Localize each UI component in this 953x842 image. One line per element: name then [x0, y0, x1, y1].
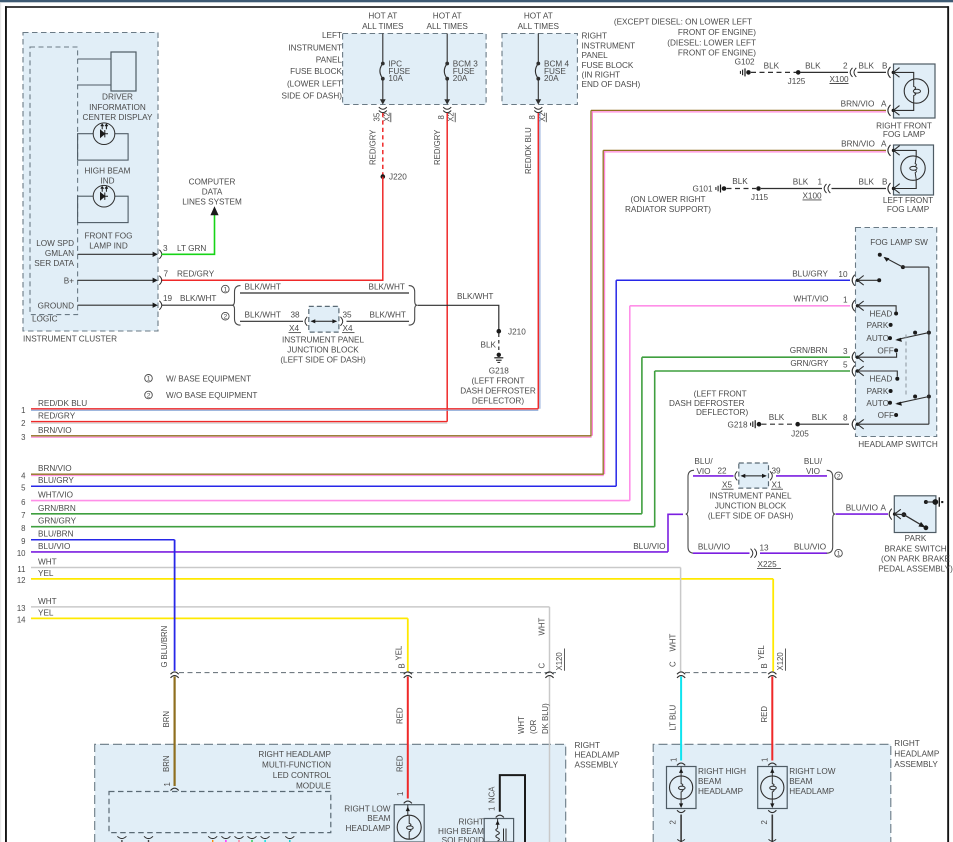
svg-text:WHT: WHT [538, 618, 547, 636]
splice J205 [791, 422, 809, 439]
wire BLK/WHT upper branch [240, 283, 409, 294]
lower switch bank positions [866, 375, 899, 421]
svg-text:BLK: BLK [764, 62, 780, 71]
wire row 12 YEL [17, 569, 773, 585]
left fog lamp pin B cup [888, 183, 900, 194]
svg-text:GRN/GRY: GRN/GRY [790, 359, 829, 368]
wire BLU/VIO riser to junction brace [633, 514, 683, 552]
svg-text:INSTRUMENT PANEL: INSTRUMENT PANEL [282, 336, 364, 345]
svg-text:BLK/WHT: BLK/WHT [369, 283, 405, 292]
ground G218 right [727, 420, 761, 429]
svg-text:RIGHT LOW: RIGHT LOW [344, 804, 391, 813]
svg-text:B: B [398, 663, 407, 668]
headlamp switch pin 1 [793, 294, 896, 311]
wire BLU/BRN vertical to module pin G [174, 540, 176, 671]
svg-text:SER DATA: SER DATA [34, 259, 74, 268]
X120 right pin C connector [669, 634, 686, 678]
legend circled 1 w/ base equipment [145, 375, 251, 384]
svg-text:GMLAN: GMLAN [45, 249, 74, 258]
svg-text:2: 2 [760, 820, 769, 824]
svg-text:RIGHT LOW: RIGHT LOW [789, 767, 836, 776]
svg-text:WHT: WHT [669, 634, 678, 652]
right instrument panel fuse block box [502, 34, 577, 105]
wire YEL vertical to X120 right pin B [772, 579, 774, 671]
svg-text:9: 9 [21, 537, 25, 546]
svg-text:1: 1 [837, 551, 841, 558]
svg-text:BLK/WHT: BLK/WHT [245, 311, 281, 320]
svg-text:RIGHT: RIGHT [894, 739, 919, 748]
junction block label [280, 336, 366, 365]
wire BLK dashed G101 to J115 [727, 177, 757, 188]
svg-text:RED: RED [760, 706, 769, 723]
splice J210 [497, 327, 527, 336]
svg-text:BLU/VIO: BLU/VIO [698, 543, 730, 552]
left front fog lamp [883, 145, 934, 214]
svg-text:G: G [160, 661, 169, 667]
headlamp switch pin 5 [790, 359, 897, 377]
svg-text:X120: X120 [776, 652, 785, 671]
connector X4 pin 38 cup [289, 317, 308, 333]
svg-text:DK BLU): DK BLU) [541, 703, 550, 734]
circled 1 lower branch [835, 549, 843, 557]
connector X225 pin 13 [751, 544, 782, 569]
wire row 14 YEL [17, 608, 408, 624]
svg-text:HEADLAMP: HEADLAMP [894, 750, 940, 759]
wire WHT vertical to X120 left pin C [549, 607, 551, 671]
headlamp switch pin 10 [792, 269, 881, 285]
svg-text:C: C [538, 663, 547, 669]
high beam lamp pin 2 [669, 810, 686, 842]
svg-text:1: 1 [818, 178, 823, 187]
svg-text:ALL TIMES: ALL TIMES [362, 22, 404, 31]
low beam headlamp lamp left [394, 801, 424, 842]
wire BRN/VIO vertical to left fog lamp [603, 150, 604, 474]
svg-text:C: C [669, 661, 678, 667]
wire row 10 BLU/VIO [17, 542, 668, 558]
svg-text:10: 10 [838, 270, 848, 279]
svg-text:1: 1 [487, 807, 496, 811]
right high beam solenoid label [438, 817, 484, 842]
top navy page bar [0, 0, 953, 2]
svg-text:GRN/BRN: GRN/BRN [790, 346, 828, 355]
cluster pin 19 stub GROUND [38, 294, 217, 310]
svg-text:BRN/VIO: BRN/VIO [841, 100, 875, 109]
wire LT BLU pin C to high beam lamp [669, 677, 682, 763]
svg-text:10A: 10A [388, 74, 403, 83]
connector X1 cup [770, 467, 783, 490]
wire BLK J125 to X100 [801, 62, 849, 73]
svg-text:BLU/BRN: BLU/BRN [160, 626, 169, 660]
svg-text:(LEFT SIDE OF DASH): (LEFT SIDE OF DASH) [280, 356, 366, 365]
svg-text:LEFT: LEFT [322, 31, 342, 40]
connector X100 pin 2 [829, 62, 856, 84]
svg-text:HEADLAMP: HEADLAMP [345, 824, 391, 833]
svg-text:MULTI-FUNCTION: MULTI-FUNCTION [262, 760, 331, 769]
wire RED pin B to low beam lamp [395, 677, 407, 799]
svg-text:13: 13 [17, 604, 26, 613]
svg-text:FOG LAMP: FOG LAMP [883, 130, 926, 139]
svg-text:X100: X100 [802, 191, 822, 200]
svg-text:ALL TIMES: ALL TIMES [426, 22, 468, 31]
connector cup below BCM4 fuse pin 8 X2 [528, 107, 547, 122]
X120 left pin B connector [395, 645, 412, 678]
svg-text:INSTRUMENT CLUSTER: INSTRUMENT CLUSTER [23, 335, 117, 344]
svg-text:B: B [882, 178, 888, 187]
legend circled 2 w/o base equipment [145, 391, 258, 400]
lower switch wiper [895, 395, 931, 406]
svg-text:LOW SPD: LOW SPD [36, 239, 74, 248]
svg-text:GRN/GRY: GRN/GRY [38, 517, 77, 526]
wire BLU/GRY horizontal to pin 10 [616, 279, 850, 281]
wire RED pin B to low beam lamp right [760, 677, 773, 763]
circled 2 upper branch [835, 472, 843, 480]
wire BRN/VIO right fog lamp pin A [591, 100, 900, 116]
svg-text:20A: 20A [544, 74, 559, 83]
svg-text:HIGH BEAM: HIGH BEAM [85, 166, 131, 175]
right low beam headlamp lamp [758, 763, 836, 808]
right headlamp assembly box right (halogen version) [653, 739, 940, 842]
wire BLK X100 to left fog lamp pin B [832, 178, 889, 189]
wire row 2 RED/GRY [21, 412, 447, 428]
wire NCA loop [487, 775, 525, 842]
close brace BLU/VIO join [827, 470, 835, 553]
svg-text:ALL TIMES: ALL TIMES [518, 22, 560, 31]
svg-text:BLU/VIO: BLU/VIO [38, 542, 70, 551]
svg-text:INFORMATION: INFORMATION [89, 103, 146, 112]
svg-text:10: 10 [17, 549, 26, 558]
svg-text:BEAM: BEAM [789, 777, 812, 786]
wire YEL vertical to X120 left pin B [407, 618, 409, 671]
connector X5 cup [722, 471, 738, 489]
svg-text:BLU/VIO: BLU/VIO [846, 504, 878, 513]
wire BRN pin G to module [162, 677, 174, 787]
svg-text:RIGHT FRONT: RIGHT FRONT [876, 121, 932, 130]
svg-text:X120: X120 [555, 652, 564, 671]
solenoid pin 1 cup [496, 815, 504, 817]
svg-text:BLK/WHT: BLK/WHT [457, 292, 493, 301]
svg-text:YEL: YEL [38, 608, 54, 617]
svg-text:FRONT OF ENGINE): FRONT OF ENGINE) [678, 48, 756, 57]
high beam indicator LED [78, 123, 131, 185]
module pin G connector [160, 626, 179, 678]
svg-text:BRN/VIO: BRN/VIO [841, 139, 875, 148]
wire BLU/VIO lower branch right [760, 543, 827, 554]
svg-text:BRN: BRN [162, 711, 171, 727]
circled 2 at brace [222, 312, 230, 320]
headlamp switch box [856, 228, 938, 450]
svg-text:(ON LOWER RIGHT: (ON LOWER RIGHT [630, 195, 705, 204]
svg-text:BLU/VIO: BLU/VIO [794, 543, 826, 552]
svg-text:(EXCEPT DIESEL: ON LOWER LEFT: (EXCEPT DIESEL: ON LOWER LEFT [614, 18, 752, 27]
svg-text:(LOWER LEFT: (LOWER LEFT [287, 80, 342, 89]
svg-text:HEADLAMP: HEADLAMP [575, 751, 621, 760]
svg-text:1: 1 [147, 376, 151, 383]
computer data lines arrow [182, 177, 242, 215]
svg-text:MODULE: MODULE [296, 781, 332, 790]
svg-text:HIGH BEAM: HIGH BEAM [438, 827, 484, 836]
svg-text:LOGIC: LOGIC [32, 315, 58, 324]
svg-text:WHT: WHT [38, 597, 57, 606]
svg-text:RED/GRY: RED/GRY [433, 129, 442, 165]
park brake switch [893, 496, 943, 533]
hot at all times label 2 [426, 11, 468, 31]
splice J125 [788, 70, 806, 86]
svg-text:1: 1 [21, 406, 25, 415]
svg-text:HOT AT: HOT AT [368, 11, 397, 20]
wire WHT/VIO vertical to headlamp sw pin 1 [629, 306, 631, 501]
wire RED/DK BLU solid BCM4 down to row 1 [524, 113, 540, 409]
svg-text:J210: J210 [508, 327, 526, 336]
wire row 4 BRN/VIO [21, 464, 604, 480]
except diesel note [614, 18, 756, 58]
front fog lamp indicator LED [78, 185, 133, 250]
wire GRN/GRY vertical to headlamp sw pin 5 [654, 371, 656, 527]
svg-text:AUTO: AUTO [866, 334, 889, 343]
svg-text:8: 8 [21, 524, 25, 533]
cluster pin 3 stub [78, 244, 168, 259]
svg-text:3: 3 [163, 244, 168, 253]
svg-text:11: 11 [17, 565, 25, 574]
svg-text:YEL: YEL [38, 569, 54, 578]
svg-text:IND: IND [100, 176, 114, 185]
svg-text:RED/GRY: RED/GRY [38, 412, 76, 421]
svg-text:SOLENOID: SOLENOID [442, 836, 484, 842]
svg-text:LT BLU: LT BLU [669, 704, 678, 730]
right fog lamp pin B cup [888, 67, 900, 78]
park brake switch pin A cup [889, 509, 892, 520]
X120 left dashed connector line [179, 672, 556, 674]
svg-text:20A: 20A [453, 74, 468, 83]
svg-text:HEAD: HEAD [870, 310, 893, 319]
wire RED/GRY solid from J220 to B+ corner [161, 177, 383, 281]
svg-text:1: 1 [843, 295, 848, 304]
fuse BCM 3 20A [444, 34, 478, 105]
svg-text:BLK: BLK [793, 178, 809, 187]
svg-text:X1: X1 [772, 481, 782, 490]
svg-text:3: 3 [21, 433, 25, 442]
svg-text:12: 12 [17, 576, 26, 585]
svg-text:GROUND: GROUND [38, 301, 74, 310]
svg-text:PARK: PARK [905, 534, 927, 543]
svg-text:19: 19 [163, 294, 173, 303]
svg-text:LAMP IND: LAMP IND [89, 241, 128, 250]
svg-text:(LEFT SIDE OF DASH): (LEFT SIDE OF DASH) [708, 512, 794, 521]
wire BLK X100 to right fog lamp pin B [858, 62, 889, 73]
wire BLK dashed G218 to J205 [762, 413, 796, 424]
svg-text:HEAD: HEAD [870, 375, 893, 384]
svg-text:SIDE OF DASH): SIDE OF DASH) [281, 92, 342, 101]
svg-text:1: 1 [669, 758, 678, 762]
wire BLK dashed to ground [481, 334, 499, 354]
svg-text:BLU/: BLU/ [804, 457, 823, 466]
left instrument panel fuse block box [343, 34, 487, 105]
wire row 3 BRN/VIO [21, 426, 591, 442]
fuse BCM 4 20A [535, 34, 569, 105]
svg-text:LED CONTROL: LED CONTROL [273, 771, 332, 780]
open brace for junction block branches [232, 286, 240, 326]
svg-text:YEL: YEL [757, 645, 766, 660]
svg-text:G101: G101 [692, 185, 712, 194]
svg-text:GRN/BRN: GRN/BRN [38, 504, 76, 513]
svg-text:A: A [881, 139, 887, 148]
open brace BLU/VIO split [686, 470, 694, 553]
svg-text:JUNCTION BLOCK: JUNCTION BLOCK [715, 501, 787, 510]
wire row 9 BLU/BRN [21, 530, 174, 546]
wire BLU/VIO lower branch left [693, 543, 750, 554]
svg-text:BLK: BLK [812, 413, 828, 422]
common rail [928, 267, 930, 424]
svg-text:PANEL: PANEL [582, 51, 609, 60]
X120 right dashed connector line [685, 672, 770, 674]
svg-text:JUNCTION BLOCK: JUNCTION BLOCK [287, 345, 359, 354]
wire row 11 WHT [17, 558, 680, 574]
svg-text:BLK/WHT: BLK/WHT [370, 311, 406, 320]
mechanical link dashed [905, 335, 907, 397]
svg-text:BEAM: BEAM [367, 814, 390, 823]
svg-text:1: 1 [761, 758, 770, 762]
svg-text:X4: X4 [343, 324, 353, 333]
driver information center display [78, 52, 153, 122]
svg-text:DRIVER: DRIVER [102, 92, 133, 101]
wire row 13 WHT [17, 597, 550, 613]
svg-text:X2: X2 [447, 112, 456, 122]
svg-text:HEADLAMP: HEADLAMP [789, 787, 835, 796]
svg-text:B: B [760, 663, 769, 668]
svg-text:A: A [881, 100, 887, 109]
svg-text:35: 35 [343, 311, 353, 320]
led control module inner box [109, 792, 331, 833]
svg-text:DATA: DATA [202, 187, 223, 196]
svg-text:PARK: PARK [867, 321, 889, 330]
ground G218 left [460, 353, 536, 406]
svg-text:BLK: BLK [769, 413, 785, 422]
left page edge shading [0, 2, 1, 842]
junction block 2 label [708, 491, 794, 520]
wire RED/GRY dashed from IPC fuse to J220 [368, 113, 382, 175]
svg-text:BLK/WHT: BLK/WHT [245, 283, 281, 292]
wire BLU/VIO to park brake switch [836, 504, 889, 514]
svg-text:6: 6 [21, 498, 25, 507]
wire GRN/BRN vertical to headlamp sw pin 3 [641, 357, 643, 514]
svg-text:WHT/VIO: WHT/VIO [793, 294, 828, 303]
svg-text:(IN RIGHT: (IN RIGHT [582, 71, 621, 80]
svg-text:HEADLAMP SWITCH: HEADLAMP SWITCH [858, 440, 938, 449]
wire BLK/WHT lower branch left [240, 311, 303, 322]
headlamp switch pin 3 [790, 346, 897, 363]
svg-text:A: A [881, 504, 887, 513]
splice J220 [381, 173, 408, 182]
wire BRN/VIO vertical to right fog lamp [591, 110, 592, 435]
svg-text:INSTRUMENT: INSTRUMENT [582, 41, 636, 50]
svg-text:B: B [882, 62, 888, 71]
svg-text:RED/DK BLU: RED/DK BLU [524, 127, 533, 174]
svg-text:X100: X100 [829, 75, 849, 84]
ground G102 [735, 57, 755, 76]
right fuse block label [582, 32, 641, 89]
svg-text:J115: J115 [751, 193, 769, 202]
svg-text:4: 4 [21, 472, 26, 481]
svg-text:8: 8 [437, 115, 446, 119]
svg-text:RIGHT: RIGHT [459, 817, 484, 826]
svg-text:2: 2 [669, 820, 678, 824]
wire WHT/VIO horizontal to pin 1 [630, 305, 850, 307]
park brake switch label [878, 534, 953, 573]
svg-text:G102: G102 [735, 57, 755, 66]
svg-text:G218: G218 [727, 420, 747, 429]
svg-text:RIGHT HIGH: RIGHT HIGH [698, 767, 746, 776]
X120 right pin B connector [757, 645, 786, 678]
svg-text:1: 1 [163, 782, 172, 786]
right high beam headlamp lamp [667, 763, 747, 808]
wire row 5 BLU/GRY [21, 476, 616, 492]
svg-text:BLK: BLK [805, 62, 821, 71]
svg-text:INSTRUMENT PANEL: INSTRUMENT PANEL [709, 491, 791, 500]
wire WHT OR DK BLU pin C down [517, 677, 550, 842]
svg-text:G218: G218 [489, 367, 509, 376]
svg-text:(OR: (OR [529, 719, 538, 734]
svg-text:BEAM: BEAM [698, 777, 721, 786]
svg-text:3: 3 [843, 347, 848, 356]
splice J115 [751, 186, 769, 202]
svg-text:RED: RED [395, 755, 404, 772]
close brace joining branches [409, 286, 417, 326]
svg-text:BLU/GRY: BLU/GRY [792, 269, 828, 278]
svg-text:DASH DEFROSTER: DASH DEFROSTER [669, 399, 745, 408]
svg-text:1: 1 [396, 792, 405, 796]
low beam lamp pin 2 [760, 810, 777, 842]
svg-text:PARK: PARK [867, 387, 889, 396]
svg-text:PANEL: PANEL [316, 55, 343, 64]
svg-text:39: 39 [772, 467, 782, 476]
svg-text:J205: J205 [791, 430, 809, 439]
svg-text:J125: J125 [788, 77, 806, 86]
svg-text:BRN: BRN [162, 756, 171, 772]
svg-text:COMPUTER: COMPUTER [189, 177, 236, 186]
svg-text:BLK: BLK [481, 341, 497, 350]
svg-text:BLU/GRY: BLU/GRY [38, 476, 74, 485]
svg-text:LEFT FRONT: LEFT FRONT [883, 196, 933, 205]
cluster pin labels LOW SPD GMLAN SER DATA [34, 239, 74, 268]
svg-text:LINES SYSTEM: LINES SYSTEM [182, 197, 242, 206]
svg-text:ASSEMBLY: ASSEMBLY [575, 761, 619, 770]
svg-text:X5: X5 [722, 481, 732, 490]
headlamp switch pin 8 [843, 414, 929, 430]
svg-text:BLK: BLK [859, 62, 875, 71]
svg-text:(DIESEL: LOWER LEFT: (DIESEL: LOWER LEFT [667, 38, 756, 47]
svg-text:WHT: WHT [517, 716, 526, 734]
svg-text:RED/GRY: RED/GRY [368, 129, 377, 165]
fuse IPC 10A [380, 34, 411, 105]
logic inner box [30, 47, 78, 324]
svg-text:7: 7 [21, 511, 25, 520]
svg-text:35: 35 [373, 112, 382, 121]
svg-text:RED/GRY: RED/GRY [177, 269, 215, 278]
svg-text:2: 2 [837, 473, 841, 480]
svg-text:FOG LAMP: FOG LAMP [887, 205, 930, 214]
svg-text:VIO: VIO [806, 467, 820, 476]
svg-text:BLU/VIO: BLU/VIO [633, 542, 665, 551]
svg-text:RED/DK BLU: RED/DK BLU [38, 399, 87, 408]
svg-text:HOT AT: HOT AT [524, 11, 553, 20]
svg-text:RADIATOR SUPPORT): RADIATOR SUPPORT) [625, 205, 711, 214]
svg-text:(LEFT FRONT: (LEFT FRONT [694, 390, 747, 399]
hot at all times label 1 [362, 11, 404, 31]
instrument cluster box [23, 33, 158, 344]
svg-text:7: 7 [164, 269, 169, 278]
right headlamp assembly box left (LED version) [95, 741, 620, 842]
svg-text:13: 13 [760, 544, 770, 553]
svg-text:J220: J220 [389, 173, 407, 182]
